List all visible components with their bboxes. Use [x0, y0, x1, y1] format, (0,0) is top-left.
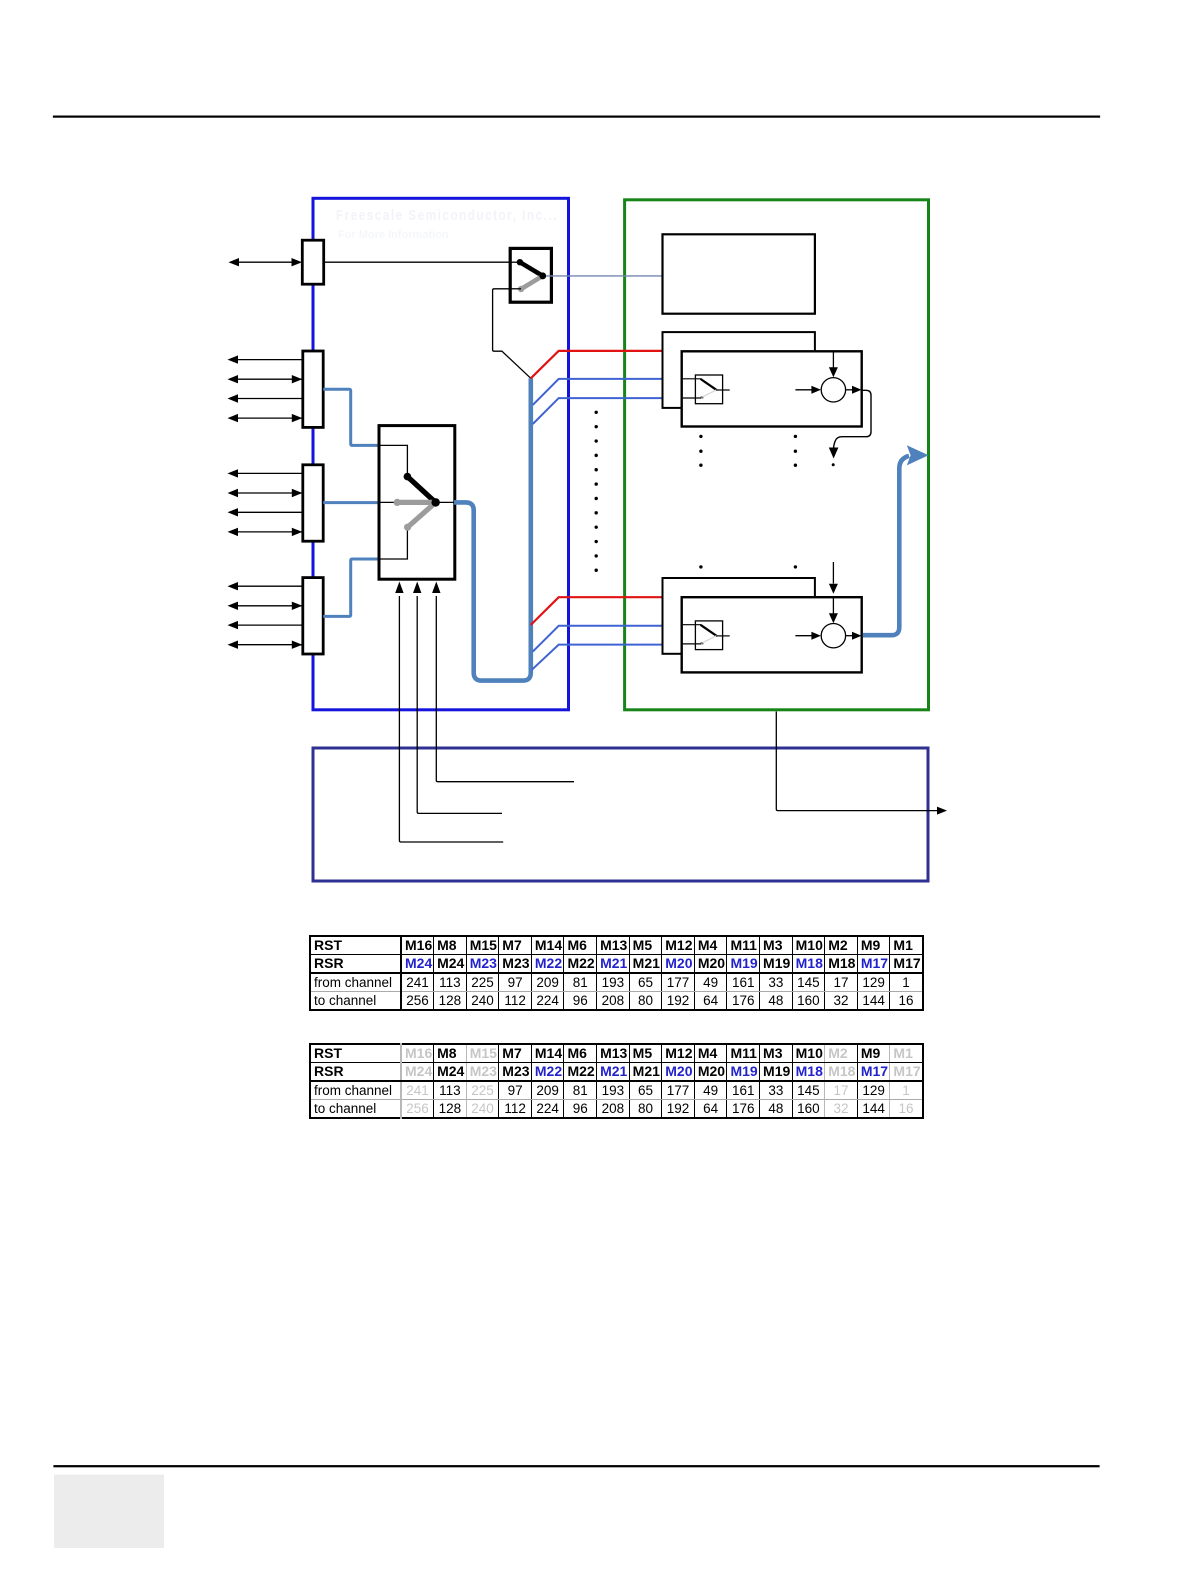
wire: register select 2 to MUX — [417, 596, 502, 813]
wire: MUX input 3 internal — [380, 529, 407, 559]
wire: pin arrow P2.3 — [237, 398, 303, 400]
wire: pin arrow P4.1 — [237, 585, 303, 587]
wire: register select 3 to MUX — [436, 596, 574, 782]
summer circle CH1 — [821, 378, 845, 402]
svg-text:Freescale Semiconductor, Inc..: Freescale Semiconductor, Inc... — [336, 207, 558, 224]
channel block CH1 inner rect — [682, 351, 862, 426]
wire: pin arrow P2.1 — [237, 359, 303, 361]
wire: pin arrow P3.3 — [237, 511, 303, 513]
wire: P4 to MUX (steel) — [323, 559, 379, 616]
wire: CH1 switch lower stub — [683, 397, 702, 399]
ellipsis dots column (demux fan) — [595, 411, 598, 414]
wire: SW0 lower contact to demux fan point — [511, 288, 521, 290]
wire: CH1 switch common stub — [716, 389, 729, 391]
wire: bidirectional pin arrow P1 — [238, 261, 295, 263]
SW0 arm unselected (gray) — [521, 276, 543, 289]
wire: SW0 input stub — [511, 261, 520, 263]
MUX arm selected (input1 -> common) — [407, 477, 435, 503]
wire: arrow into summer CH2 from left — [795, 635, 812, 637]
wire: green box to interrupt arrow — [776, 712, 938, 811]
channel CH2 input switch square — [695, 621, 722, 650]
top horizontal rule — [54, 115, 1099, 117]
wire: pin arrow P2.2 — [237, 378, 303, 380]
MUX arm unselected low (gray) — [408, 502, 436, 527]
wire: pin arrow P3.2 — [237, 492, 303, 494]
serial switch SW0 box — [510, 248, 551, 302]
channel block CH2 outer rect — [663, 578, 815, 654]
wire: red clock to channel 2 — [531, 597, 663, 625]
svg-text:For More Information: For More Information — [338, 229, 449, 241]
routing table 1 — [309, 935, 924, 1011]
wire: pin arrow P4.2 — [237, 605, 303, 607]
wire: CH2 switch lower stub — [683, 643, 702, 645]
wire: pin arrow P3.4 — [237, 531, 303, 533]
wire: arrow out of summer CH1 — [846, 389, 854, 391]
big steel arrowhead exiting green box — [907, 445, 929, 465]
ellipsis dots column (channel mid) — [794, 435, 797, 438]
channel CH1 input switch square — [695, 375, 722, 404]
wire: CH1 output S-curve to chain below — [834, 390, 871, 448]
CH2 switch arm selected — [701, 625, 716, 635]
wire: blue data to channel 2 (lower) — [532, 645, 682, 670]
wire: CH2 output to green box exit (thick steel) — [863, 456, 909, 635]
routing table 2 (partially grayed) — [309, 1043, 924, 1119]
summer circle CH2 — [821, 624, 845, 648]
CH2 switch arm unselected — [702, 636, 717, 643]
wire: MUX input 2 internal — [380, 501, 435, 503]
wire: P1 to serial switch SW0 — [324, 261, 510, 263]
footer gray box — [54, 1475, 164, 1548]
wire: blue data to channel 2 (upper) — [533, 626, 682, 652]
port block P2 — [303, 351, 323, 427]
channel block CH2 inner rect — [682, 597, 862, 672]
green region box — [625, 200, 929, 710]
wire: register select 1 to MUX — [399, 596, 503, 842]
wire: arrow out of summer CH2 — [846, 635, 854, 637]
wire: SW0 common to SCC block (slate) — [546, 275, 663, 277]
wire: pin arrow P2.4 — [237, 417, 303, 419]
wire: arrow into CH2 from chain above — [832, 562, 834, 584]
wire: pin arrow P4.3 — [237, 624, 303, 626]
wire: blue data to channel 1 (upper) — [533, 379, 683, 405]
wire: pin arrow P4.4 — [237, 644, 303, 646]
wire: red clock to channel 1 — [531, 351, 663, 378]
wire: pin arrow P3.1 — [237, 472, 303, 474]
channel block CH1 outer rect — [663, 332, 815, 408]
wire: arrow into summer CH1 from top — [832, 351, 834, 368]
wire: P3 to MUX (steel) — [323, 501, 379, 504]
wire: CH2 switch common stub — [716, 635, 729, 637]
MUX switch block — [379, 426, 455, 580]
bottom horizontal rule — [55, 1465, 1099, 1467]
SCC block (top rectangle in green box) — [663, 234, 815, 313]
wire: arrow into summer CH1 from left — [795, 389, 812, 391]
CH1 switch arm selected — [701, 379, 716, 389]
wire: blue data to channel 1 (lower) — [533, 398, 683, 424]
SW0 arm selected — [520, 262, 543, 276]
navy control-register box — [313, 748, 928, 881]
ellipsis dot (chain arrow) — [832, 463, 835, 466]
CH1 switch arm unselected — [702, 390, 717, 397]
wire: CH1 switch upper stub — [683, 378, 702, 380]
port block P1 — [302, 240, 323, 284]
wire: CH2 switch upper stub — [683, 624, 702, 626]
port block P4 — [303, 578, 323, 654]
ellipsis dots column (channel left) — [699, 435, 702, 438]
wire: P2 to MUX (steel) — [323, 389, 379, 445]
wire: arrow into summer CH2 from top — [832, 597, 834, 614]
MUX arm unselected mid (gray) — [397, 500, 435, 505]
wire: MUX input 1 internal — [380, 445, 407, 474]
port block P3 — [303, 465, 323, 541]
wire: MUX output internal — [435, 501, 454, 503]
blue region box — [313, 198, 569, 710]
wire: MUX output loop to fan point (thick steel) — [454, 378, 531, 680]
